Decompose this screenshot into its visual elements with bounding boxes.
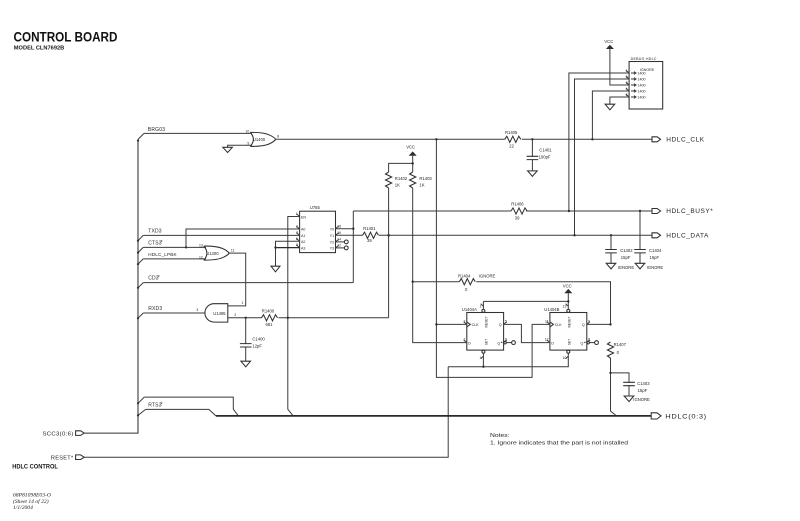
junction FF-A SET tap — [482, 366, 484, 368]
svg-text:Q: Q — [499, 323, 502, 327]
capacitor C1401 — [527, 139, 553, 171]
svg-text:Y1: Y1 — [330, 234, 334, 238]
connector HDLC_BUSY* — [652, 209, 661, 214]
connector HDLC_DATA — [652, 233, 661, 238]
wire FF-B Qbar stub — [589, 342, 594, 344]
svg-text:U1404B: U1404B — [544, 307, 559, 312]
junction R1402 tap — [387, 234, 390, 237]
junction bus-row1 — [137, 402, 139, 404]
junction bus-RXD3 — [137, 317, 139, 319]
svg-text:C1400: C1400 — [252, 337, 265, 342]
svg-text:IGNORE: IGNORE — [633, 397, 650, 402]
svg-text:D: D — [551, 341, 554, 345]
bubble FF-B RESET — [567, 309, 570, 312]
svg-text:1400: 1400 — [638, 90, 646, 94]
svg-text:CLK: CLK — [555, 323, 563, 327]
svg-text:IGNORE: IGNORE — [618, 265, 635, 270]
svg-text:681: 681 — [266, 322, 274, 327]
svg-text:D: D — [468, 341, 471, 345]
wire U1400B pin11 to U1495 pin1 — [228, 253, 246, 306]
svg-text:1/1/2004: 1/1/2004 — [13, 505, 33, 511]
wire unnamed net to bus entry — [144, 397, 238, 416]
svg-text:A0: A0 — [301, 228, 305, 232]
bus HDLC(0:3) — [216, 415, 651, 417]
svg-text:EN: EN — [301, 215, 306, 219]
wire FF-A SET stub — [482, 353, 484, 367]
svg-text:10: 10 — [246, 130, 250, 134]
and-gate U1495 (mirrored) — [205, 304, 228, 322]
no-connect FF-B Qbar — [595, 341, 599, 345]
svg-text:BRG03: BRG03 — [148, 127, 165, 133]
svg-text:VCC: VCC — [604, 39, 613, 44]
junction VCC branch — [412, 162, 414, 164]
ground at C1404 — [635, 263, 645, 269]
wire Y1 to R1401 — [336, 234, 363, 236]
junction A2-A3 — [274, 246, 276, 248]
junction D-net tap — [412, 281, 414, 283]
wire SET line — [448, 353, 568, 367]
connector HDLC(0:3) — [651, 413, 661, 419]
node TXD3 stub — [138, 235, 143, 240]
svg-text:SET: SET — [567, 339, 571, 345]
wire RESET line to FF-A — [483, 300, 568, 302]
bubble FF-A SET — [482, 350, 485, 353]
svg-text:R1401: R1401 — [363, 226, 376, 231]
junction CTS3-A0 — [185, 246, 187, 248]
wire A3 tie — [276, 247, 300, 249]
svg-text:1400: 1400 — [638, 78, 646, 82]
svg-text:SCC3(0:6): SCC3(0:6) — [43, 431, 74, 437]
capacitor C1404 — [634, 211, 662, 263]
wire FF-A CLK — [436, 323, 466, 325]
pin ticks U755 right — [336, 226, 339, 248]
wire C1403 branch — [611, 373, 630, 382]
svg-text:11: 11 — [231, 248, 235, 252]
svg-text:Notes:: Notes: — [490, 433, 510, 439]
svg-text:Y2: Y2 — [330, 241, 334, 245]
svg-text:39: 39 — [367, 238, 372, 243]
or-gate U1400A — [250, 132, 275, 146]
wire Y0/CD3 riser — [352, 211, 354, 283]
pin ticks U1404B — [547, 304, 590, 359]
node BRG03 stub — [138, 133, 144, 139]
bubble FF-A Qbar — [504, 341, 507, 344]
svg-text:3: 3 — [196, 308, 198, 312]
svg-text:1. Ignore indicates that the p: 1. Ignore indicates that the part is not… — [490, 440, 628, 446]
wire HDLC_BUSY net — [353, 210, 652, 212]
connector HDLC_CLK — [652, 137, 661, 142]
resistor R1402 — [386, 172, 392, 188]
svg-text:C1402: C1402 — [620, 248, 633, 253]
wire CTS3* to U1400 pin13 — [143, 246, 206, 248]
connector RESET* — [76, 455, 85, 460]
svg-text:Q: Q — [581, 341, 584, 345]
wire FF-B RESET to VCC — [567, 293, 569, 309]
wire HDLC_CLK net (gate output to connector) — [276, 138, 652, 140]
svg-text:68P81098E03-O: 68P81098E03-O — [13, 492, 51, 498]
svg-text:100pF: 100pF — [539, 155, 551, 160]
wire debug pin2 to HDLC_DATA net — [575, 79, 630, 235]
svg-text:15pF: 15pF — [621, 255, 631, 260]
pin ticks DEBUG HDLC — [626, 70, 629, 97]
svg-text:RESET: RESET — [484, 317, 488, 328]
pin ticks U1404A — [464, 304, 507, 359]
wire HDLC_LPBK to U1400 pin12 — [143, 258, 206, 260]
wire BRG03 — [144, 132, 252, 134]
svg-text:A3: A3 — [301, 246, 305, 250]
no-connect Y3 — [344, 246, 348, 250]
svg-text:12: 12 — [199, 255, 203, 259]
svg-text:C1404: C1404 — [649, 248, 662, 253]
svg-text:DEBUG HDLC: DEBUG HDLC — [631, 57, 657, 61]
capacitor C1400 — [240, 318, 266, 361]
junction bus-CTS3 — [137, 252, 139, 254]
wire R1404 row (D net) — [413, 282, 611, 325]
wire CLK vertical to flip-flop clocks — [436, 139, 550, 377]
svg-text:*: * — [161, 240, 163, 246]
svg-text:Q: Q — [497, 341, 500, 345]
svg-text:U1495: U1495 — [213, 311, 226, 316]
svg-text:Y0: Y0 — [330, 228, 334, 232]
or-gate U1400B — [204, 246, 230, 260]
bubble FF-B Qbar — [587, 341, 590, 344]
svg-text:13: 13 — [199, 243, 203, 247]
wire FF-A Q to FF-B D — [504, 324, 550, 342]
wire A2/A3 to ground — [275, 248, 277, 267]
wire R1402 to DATA and EN row — [388, 188, 390, 318]
wire debug pin3 to VCC — [610, 49, 629, 85]
wire debug pin4 to HDLC_CLK net — [592, 91, 629, 139]
svg-text:Y3: Y3 — [330, 247, 334, 251]
svg-text:8: 8 — [277, 135, 279, 139]
svg-text:U1400: U1400 — [206, 251, 219, 256]
svg-text:R1407: R1407 — [614, 342, 627, 347]
node HDLC_LPBK stub — [138, 259, 143, 264]
svg-text:15pF: 15pF — [650, 255, 660, 260]
ground at C1401 — [528, 171, 538, 176]
flip-flop U1404B — [544, 307, 587, 350]
junction Y0 tap — [352, 228, 354, 230]
svg-text:IGNORE: IGNORE — [647, 265, 664, 270]
no-connect Y2 — [344, 240, 348, 244]
node unnamed stub row — [138, 397, 144, 403]
pin arrows and net labels 1400 — [631, 72, 646, 100]
svg-text:HDLC_DATA: HDLC_DATA — [666, 233, 709, 240]
ground at U1400A pin9 — [223, 147, 233, 152]
junction bus-LPBK — [137, 263, 139, 265]
bubble FF-A RESET — [482, 309, 485, 312]
resistor R1400 — [262, 315, 278, 321]
resistor R1407 — [607, 342, 613, 358]
wire U1400A pin9 input — [228, 145, 252, 147]
power VCC at debug — [606, 45, 614, 49]
svg-text:U1400: U1400 — [253, 137, 266, 142]
junction bus-TXD3 — [137, 240, 139, 242]
junction debug pin1 tap — [568, 210, 570, 212]
svg-text:HDLC_CLK: HDLC_CLK — [666, 137, 704, 144]
svg-text:C1403: C1403 — [637, 381, 650, 386]
svg-text:(Sheet 14 of 22): (Sheet 14 of 22) — [13, 498, 49, 505]
svg-text:2: 2 — [234, 313, 236, 317]
no-connect FF-A Qbar — [512, 341, 516, 345]
junction bus-CD3 — [137, 287, 139, 289]
wire HDLC_DATA net — [379, 234, 652, 236]
wire Y0 to riser — [336, 228, 354, 230]
ground at C1400 — [241, 361, 251, 367]
wire R1403 to D line — [413, 188, 467, 343]
svg-text:HDLC CONTROL: HDLC CONTROL — [12, 463, 58, 470]
svg-text:TXD3: TXD3 — [148, 229, 162, 235]
wire RXD3 to U1495 pin3 — [143, 312, 205, 314]
wire FF-A RESET stub — [482, 301, 484, 309]
node RTS3* stub — [138, 409, 146, 415]
junction C1403 tap — [609, 372, 611, 374]
svg-text:1400: 1400 — [638, 84, 646, 88]
resistor R1405 — [505, 136, 521, 142]
junction FF-A CLK tap — [435, 323, 437, 325]
wire SCC3 bus riser (left vertical) — [84, 139, 138, 433]
svg-text:VCC: VCC — [563, 284, 572, 289]
svg-text:22: 22 — [509, 143, 514, 148]
svg-text:1400: 1400 — [638, 72, 646, 76]
svg-text:13: 13 — [563, 304, 567, 308]
svg-text:R1403: R1403 — [419, 176, 432, 181]
svg-text:SET: SET — [484, 339, 488, 345]
svg-text:1: 1 — [242, 301, 244, 305]
svg-text:*: * — [158, 275, 160, 281]
wire Y3 stub — [336, 247, 345, 249]
wire R1407 to bus entry — [611, 358, 617, 416]
svg-text:R1406: R1406 — [511, 202, 524, 207]
resistor R1401 — [363, 232, 379, 238]
svg-text:U1404A: U1404A — [462, 307, 477, 312]
svg-text:C1401: C1401 — [539, 148, 552, 153]
ground at U755 A2/A3 — [271, 266, 280, 272]
svg-text:R1402: R1402 — [395, 176, 408, 181]
ground at debug pin5 — [605, 104, 615, 110]
junction debug pin4 tap — [591, 138, 593, 140]
wire CTS3 branch up to U755 A0 — [186, 229, 300, 247]
svg-text:15pF: 15pF — [638, 388, 648, 393]
node CTS3* stub — [138, 247, 143, 252]
wire TXD3 to U755 A1 — [143, 234, 299, 236]
svg-text:1K: 1K — [419, 182, 424, 187]
junction bus-BRG03 — [137, 140, 139, 142]
svg-text:HDLC_BUSY*: HDLC_BUSY* — [666, 208, 713, 215]
wire VCC to R1402/R1403 — [389, 156, 413, 172]
wire debug pin5 to ground — [610, 97, 629, 104]
svg-text:CONTROL BOARD: CONTROL BOARD — [14, 29, 118, 45]
capacitor C1403 — [623, 381, 650, 396]
svg-text:Q: Q — [582, 323, 585, 327]
resistor R1403 — [410, 172, 416, 188]
wire RTS3* to bus entry — [146, 409, 216, 416]
svg-text:R1404: R1404 — [458, 274, 471, 279]
svg-text:12pF: 12pF — [252, 343, 262, 348]
wire FF-B Q to R1407 — [587, 323, 611, 325]
svg-text:A2: A2 — [301, 240, 305, 244]
wire U1495 pin2 / EN row — [228, 317, 389, 319]
junction Q-B tap — [609, 323, 611, 325]
connector SCC3(0:6) — [76, 431, 85, 436]
junction RESET line — [567, 300, 569, 302]
junction EN riser tap — [287, 317, 289, 319]
svg-text:HDLC(0:3): HDLC(0:3) — [665, 413, 707, 420]
pin ticks U755 left — [296, 214, 299, 248]
wire FF-A Qbar stub — [506, 342, 511, 344]
svg-text:R1405: R1405 — [505, 130, 518, 135]
wire A2 tie — [276, 241, 300, 247]
ground at C1403 — [624, 396, 634, 402]
wire CD3* to vertical riser — [143, 282, 353, 284]
junction C1402 tap — [610, 234, 612, 236]
svg-text:1K: 1K — [395, 182, 400, 187]
junction bus-RTS3 — [137, 414, 139, 416]
IC U755 — [300, 205, 336, 253]
wire EN to bus entry (long vertical) — [288, 217, 300, 416]
wire debug pin1 to HDLC_BUSY net — [569, 73, 629, 211]
svg-text:RESET: RESET — [567, 317, 571, 328]
node CD3* stub — [138, 283, 143, 288]
capacitor C1402 — [605, 235, 633, 263]
node RXD3 stub — [138, 313, 143, 318]
ground at C1402 — [606, 263, 616, 269]
wire Y2 stub — [336, 241, 345, 243]
svg-text:IGNORE: IGNORE — [479, 274, 496, 279]
wire RESET* to flip-flop SET line — [84, 367, 448, 458]
svg-text:R1400: R1400 — [262, 309, 275, 314]
junction CLK net top — [435, 138, 437, 140]
svg-text:HDLC_LPBK: HDLC_LPBK — [148, 252, 177, 257]
svg-text:39: 39 — [515, 216, 520, 221]
resistor R1406 — [511, 208, 527, 214]
svg-text:*: * — [161, 402, 163, 408]
connector DEBUG HDLC J1400 — [629, 57, 663, 109]
svg-text:A1: A1 — [301, 234, 305, 238]
bubble FF-B SET — [567, 350, 570, 353]
flip-flop U1404A — [462, 307, 504, 350]
svg-text:VCC: VCC — [406, 144, 415, 149]
svg-text:RXD3: RXD3 — [148, 306, 162, 312]
resistor R1404 — [459, 279, 475, 285]
junction debug pin2 tap — [573, 234, 575, 236]
junction C1404 tap — [639, 210, 641, 212]
svg-text:1400: 1400 — [638, 96, 646, 100]
svg-text:U755: U755 — [310, 205, 321, 210]
svg-text:RESET*: RESET* — [51, 456, 74, 462]
junction C1400 tap — [245, 317, 247, 319]
svg-text:CLK: CLK — [472, 323, 480, 327]
junction C1401 tap — [531, 138, 533, 140]
svg-text:MODEL CLN7692B: MODEL CLN7692B — [14, 46, 65, 52]
